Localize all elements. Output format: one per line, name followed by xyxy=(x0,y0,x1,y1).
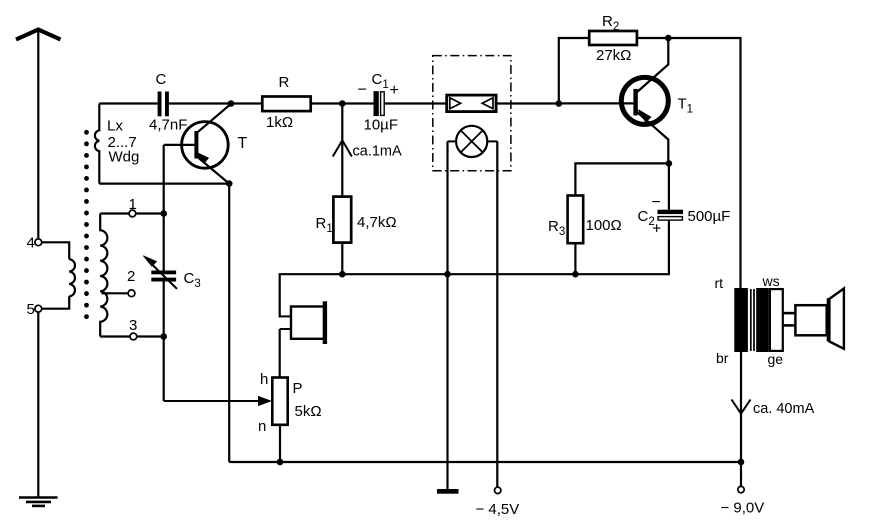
secondary coil xyxy=(100,214,107,337)
current arrow ca.40mA xyxy=(732,400,751,414)
svg-text:P: P xyxy=(293,380,303,397)
svg-text:5: 5 xyxy=(27,301,35,318)
ferrite rod (dotted) xyxy=(84,132,89,316)
wire R to C1 xyxy=(311,102,374,104)
wire terminal4 to primary coil xyxy=(42,242,69,259)
svg-text:2: 2 xyxy=(127,268,135,285)
wire P bottom to bottom rail xyxy=(279,425,281,462)
transistor T xyxy=(182,122,229,169)
svg-text:4,7kΩ: 4,7kΩ xyxy=(357,214,397,231)
node emitter T xyxy=(226,180,233,187)
lamp left lead down to battery tap xyxy=(446,141,448,489)
wire base T down xyxy=(163,145,165,271)
wire primary coil to terminal 5 xyxy=(42,296,69,308)
wire emitter node to R3 xyxy=(575,163,669,195)
wire R1 node down with current arrow ca.1mA xyxy=(341,104,343,197)
node emitter T1 xyxy=(666,160,673,167)
terminal 1 xyxy=(129,210,136,217)
terminal -9.0V xyxy=(740,462,742,486)
svg-text:27kΩ: 27kΩ xyxy=(596,47,631,64)
wire transformer primary down to -9V xyxy=(740,350,742,462)
capacitor C xyxy=(158,92,169,117)
coil Lx with leads xyxy=(95,104,99,184)
wire R2 left down to base node xyxy=(559,38,589,104)
wire terminal 5 to ground xyxy=(37,312,39,497)
svg-text:1: 1 xyxy=(129,196,137,213)
wire Lx top to capacitor C xyxy=(99,102,157,104)
svg-text:− 9,0V: − 9,0V xyxy=(721,500,765,517)
terminal 2 xyxy=(128,290,135,297)
terminal -4.5V xyxy=(495,487,501,493)
wire C2 bottom to mid rail xyxy=(668,220,670,274)
svg-text:T: T xyxy=(238,135,248,152)
svg-text:Lx: Lx xyxy=(107,118,123,135)
terminal 5 xyxy=(35,305,42,312)
speaker xyxy=(795,305,826,335)
resistor R3 xyxy=(568,196,584,244)
svg-text:+: + xyxy=(652,221,661,238)
capacitor C1 xyxy=(374,91,379,116)
svg-text:C: C xyxy=(156,71,167,88)
wire coil tap to terminal 2 xyxy=(102,292,129,294)
svg-text:10µF: 10µF xyxy=(364,117,399,134)
svg-text:n: n xyxy=(258,418,266,435)
svg-text:Wdg: Wdg xyxy=(109,149,140,166)
transformer to speaker links xyxy=(783,312,796,315)
antenna coupling coil (primary) xyxy=(69,259,75,296)
svg-text:100Ω: 100Ω xyxy=(586,217,622,234)
wire collector node to R xyxy=(231,102,262,104)
wire R1 bottom to mid rail xyxy=(341,243,343,275)
svg-text:ge: ge xyxy=(768,351,784,367)
svg-text:rt: rt xyxy=(715,275,724,291)
svg-text:500µF: 500µF xyxy=(688,208,731,225)
wire C3 bottom down to wiper level xyxy=(163,282,165,402)
svg-text:ca.1mA: ca.1mA xyxy=(353,144,402,160)
svg-text:4: 4 xyxy=(27,235,35,252)
svg-text:br: br xyxy=(716,350,729,366)
svg-text:− 4,5V: − 4,5V xyxy=(476,501,520,518)
resistor R xyxy=(262,97,310,112)
node tap3 xyxy=(160,333,167,340)
node bottom rail / -9V xyxy=(738,459,745,466)
svg-text:3: 3 xyxy=(129,317,137,334)
node collector T xyxy=(228,100,235,107)
node tap1/base xyxy=(160,210,167,217)
mid rail wire xyxy=(280,274,670,317)
svg-text:+: + xyxy=(390,82,399,99)
battery tap bar xyxy=(437,489,459,494)
wire antenna down to terminal 4 xyxy=(37,31,39,238)
antenna xyxy=(16,30,61,40)
terminal 3 xyxy=(130,333,137,340)
wire wiper from tap line to potentiometer xyxy=(164,400,263,402)
svg-text:4,7nF: 4,7nF xyxy=(149,117,187,134)
svg-text:−: − xyxy=(652,194,661,211)
svg-text:5kΩ: 5kΩ xyxy=(295,403,322,420)
capacitor C3 (variable) xyxy=(151,271,176,282)
bottom rail xyxy=(229,461,741,463)
wire emitter node down to bottom rail xyxy=(228,184,230,462)
svg-text:−: − xyxy=(358,82,367,99)
node R1 top xyxy=(339,100,346,107)
svg-text:h: h xyxy=(260,371,268,388)
wire earphone to potentiometer xyxy=(279,329,281,378)
terminal 4 xyxy=(35,239,42,246)
transistor T1 xyxy=(621,77,668,124)
svg-text:ws: ws xyxy=(762,273,780,289)
potentiometer P xyxy=(272,378,287,425)
wire C1 to meter xyxy=(385,102,447,104)
wire coil bottom to terminal 3 xyxy=(100,335,130,337)
capacitor C2 xyxy=(668,163,670,209)
svg-text:ca. 40mA: ca. 40mA xyxy=(753,401,815,417)
test instrument dashed box xyxy=(433,56,511,171)
transformer xyxy=(734,288,748,352)
lamp xyxy=(456,126,487,157)
svg-text:R: R xyxy=(279,74,290,91)
wire terminal 1 xyxy=(136,212,164,214)
wire Lx bottom to emitter node xyxy=(99,183,229,185)
lamp right lead down to -4.5V xyxy=(496,141,498,487)
wire R3 bottom to mid rail xyxy=(574,243,576,274)
svg-text:1kΩ: 1kΩ xyxy=(266,114,293,131)
wire meter to T1 base node xyxy=(496,102,559,104)
earphone xyxy=(280,315,291,317)
resistor R2 xyxy=(589,31,637,45)
resistor R1 xyxy=(333,197,351,243)
wire C to collector node xyxy=(169,102,231,104)
wire R2 right to top corner xyxy=(637,38,741,289)
meter (plug-in jack) xyxy=(447,95,496,112)
ground xyxy=(19,498,58,506)
